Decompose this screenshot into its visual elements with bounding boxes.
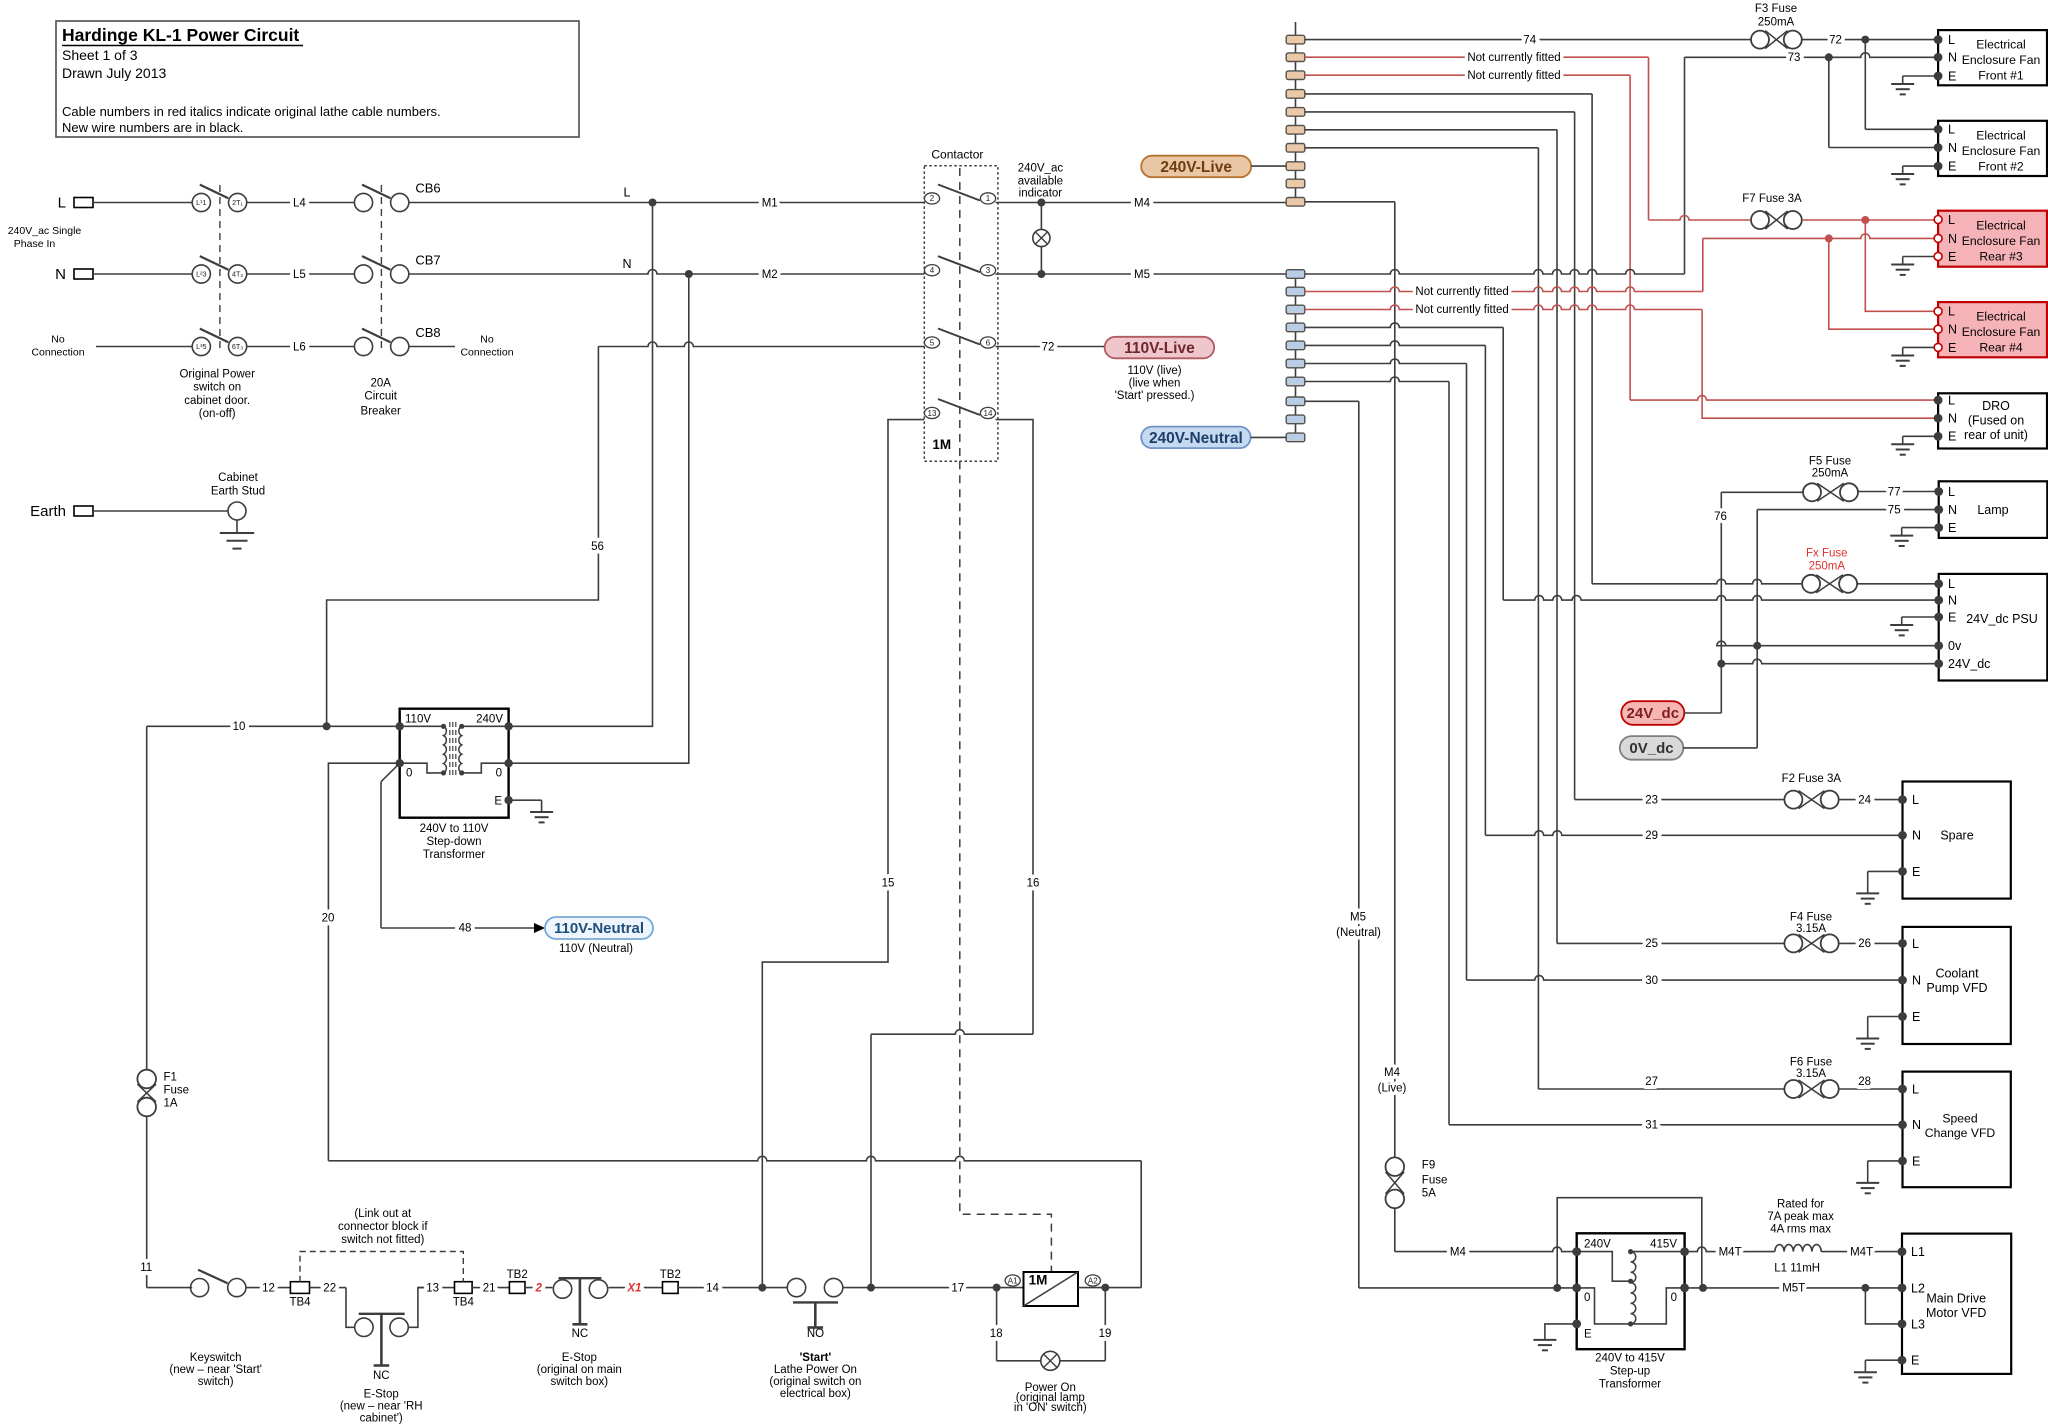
svg-text:NC: NC	[373, 1370, 390, 1382]
svg-text:Change VFD: Change VFD	[1925, 1126, 1996, 1140]
Fan2 pin L	[1934, 125, 1943, 134]
wire blu7 to Speed-N	[1305, 377, 1449, 382]
svg-text:240V to 110V: 240V to 110V	[420, 823, 489, 835]
terminal 240V-Neutral 1	[1286, 270, 1305, 279]
fan box Electrical Enclosure Fan Front #2	[1938, 121, 2047, 176]
svg-text:L5: L5	[293, 269, 306, 281]
svg-text:Enclosure Fan: Enclosure Fan	[1962, 144, 2041, 158]
wire tan4 to PSU-L	[1305, 93, 1592, 95]
Fan3 pin N	[1934, 234, 1942, 242]
svg-text:(Fused on: (Fused on	[1968, 414, 2024, 428]
wire M4T out	[1821, 1251, 1902, 1253]
svg-text:L²3: L²3	[196, 270, 206, 279]
junction L	[649, 199, 657, 207]
wire earth	[93, 510, 228, 512]
svg-text:F9: F9	[1422, 1159, 1435, 1171]
svg-text:M5: M5	[1350, 912, 1366, 924]
0V loop over T2	[1557, 1198, 1702, 1288]
svg-text:E: E	[1948, 341, 1956, 355]
wire N in	[93, 273, 192, 275]
svg-text:M4T: M4T	[1719, 1247, 1742, 1259]
Spare pin E	[1898, 867, 1907, 876]
junction wire16	[867, 1284, 875, 1292]
svg-text:rear of unit): rear of unit)	[1964, 428, 2028, 442]
box Coolant Pump VFD	[1903, 927, 2011, 1044]
junction 72/Fan2L	[1861, 36, 1869, 44]
terminal 240V-Live 9	[1286, 179, 1305, 188]
svg-text:5A: 5A	[1422, 1187, 1436, 1199]
junction M5T/L3	[1861, 1284, 1869, 1292]
wire blu2 riser to Fan3 N	[1702, 238, 1704, 291]
svg-text:Lamp: Lamp	[1977, 503, 2008, 517]
VFD pin L1	[1898, 1247, 1907, 1256]
wire A2 out	[1078, 1287, 1141, 1289]
junction F7/Fan4L	[1861, 216, 1869, 224]
svg-text:Motor VFD: Motor VFD	[1926, 1306, 1986, 1320]
wire 75	[1757, 509, 1939, 511]
svg-text:N: N	[1948, 51, 1957, 65]
Spare pin N	[1898, 831, 1907, 840]
Spare pin L	[1898, 795, 1907, 804]
Fan1 earth	[1903, 75, 1938, 77]
svg-text:110V: 110V	[405, 714, 431, 726]
transformer T2 box	[1577, 1233, 1685, 1349]
svg-text:Not currently fitted: Not currently fitted	[1467, 70, 1560, 82]
svg-text:New wire numbers are in black.: New wire numbers are in black.	[62, 120, 243, 135]
svg-text:L: L	[1912, 1082, 1919, 1096]
svg-text:indicator: indicator	[1019, 188, 1063, 200]
PSU pin L	[1934, 579, 1943, 588]
contactor pole 3 (pins 5-6)	[924, 337, 939, 348]
svg-text:M5T: M5T	[1782, 1283, 1805, 1295]
svg-text:13: 13	[928, 409, 937, 418]
wire PSU N feed	[1503, 596, 1939, 601]
DRO earth	[1903, 435, 1938, 437]
wire CB8 out	[409, 346, 455, 348]
wire 10 drop to F1	[146, 726, 148, 1069]
svg-text:240V-Neutral: 240V-Neutral	[1149, 430, 1243, 447]
svg-text:L4: L4	[293, 198, 306, 210]
fuse F6	[1784, 1080, 1802, 1098]
svg-text:31: 31	[1645, 1120, 1658, 1132]
svg-text:L1 11mH: L1 11mH	[1774, 1263, 1820, 1275]
wire 11 to keyswitch	[147, 1287, 193, 1289]
svg-text:E-Stop: E-Stop	[364, 1388, 399, 1400]
box 24V_dc PSU	[1939, 574, 2048, 681]
svg-text:14: 14	[984, 409, 993, 418]
wire not-fitted blu3 (red)	[1305, 305, 1702, 310]
svg-text:N: N	[622, 257, 631, 271]
svg-text:L³5: L³5	[196, 342, 206, 351]
svg-text:Hardinge KL-1 Power Circuit: Hardinge KL-1 Power Circuit	[62, 25, 299, 45]
svg-text:E: E	[1948, 250, 1956, 264]
svg-text:Fx Fuse: Fx Fuse	[1806, 547, 1848, 559]
svg-text:240V_ac Single: 240V_ac Single	[8, 225, 82, 237]
breaker gang link	[380, 185, 382, 352]
wire 24V_dc	[1721, 659, 1938, 664]
PSU pin 24V_dc	[1934, 659, 1943, 668]
box Speed Change VFD	[1903, 1072, 2011, 1188]
svg-text:13: 13	[426, 1283, 439, 1295]
wire blu8 M5 rail	[1305, 400, 1359, 402]
inductor L1	[1775, 1245, 1821, 1252]
svg-text:23: 23	[1645, 794, 1658, 806]
wire NC in	[96, 346, 192, 348]
svg-text:NO: NO	[807, 1328, 824, 1340]
svg-text:25: 25	[1645, 938, 1658, 950]
svg-text:E: E	[1912, 865, 1920, 879]
svg-text:'Start': 'Start'	[800, 1352, 832, 1364]
terminal 240V-Live 3	[1286, 71, 1305, 80]
junction wire19	[1101, 1284, 1109, 1292]
svg-text:Not currently fitted: Not currently fitted	[1467, 52, 1560, 64]
terminal 240V-Live 8	[1286, 162, 1305, 171]
svg-text:20A: 20A	[370, 377, 391, 389]
wire 12	[246, 1287, 290, 1289]
terminal 240V-Live 6	[1286, 126, 1305, 135]
svg-text:L1: L1	[1911, 1245, 1925, 1259]
wire tan5 to F2	[1305, 111, 1575, 113]
wire L to contactor (M1)	[409, 202, 925, 204]
PSU pin E	[1934, 613, 1943, 622]
svg-text:No: No	[480, 334, 494, 346]
T1 pin 0 right	[504, 759, 512, 767]
wire 19	[1104, 1288, 1106, 1361]
wire L6	[247, 346, 355, 348]
svg-text:Rear #4: Rear #4	[1979, 341, 2023, 355]
cabinet earth stud	[228, 502, 246, 520]
fan box Electrical Enclosure Fan Rear #4	[1938, 302, 2047, 357]
svg-text:Not currently fitted: Not currently fitted	[1415, 304, 1508, 316]
wire 48	[381, 763, 400, 782]
svg-text:17: 17	[951, 1283, 964, 1295]
switch S1 pole N (L²3/4T₂)	[192, 265, 210, 283]
svg-text:2: 2	[930, 194, 935, 203]
junction 24V_dc	[1717, 660, 1725, 668]
svg-text:7A peak max: 7A peak max	[1767, 1211, 1834, 1223]
contactor pole 4 (pins 13-14)	[924, 407, 939, 418]
terminal 240V-Neutral 5	[1286, 341, 1305, 350]
svg-text:0v: 0v	[1948, 639, 1962, 653]
DRO pin L	[1934, 396, 1943, 405]
svg-text:L: L	[1948, 485, 1955, 499]
connector N	[74, 269, 93, 279]
Lamp pin N	[1934, 505, 1943, 514]
svg-text:0: 0	[496, 768, 502, 780]
Lamp pin L	[1934, 487, 1943, 496]
svg-text:(new – near 'RH: (new – near 'RH	[340, 1400, 423, 1412]
net tag 240V-Neutral	[1141, 427, 1250, 449]
contactor pole 2 (pins 4-3)	[924, 265, 939, 276]
terminal 240V-Live 1	[1286, 35, 1305, 44]
breaker CB7	[354, 265, 372, 283]
svg-text:L: L	[1948, 577, 1955, 591]
svg-text:L3: L3	[1911, 1317, 1925, 1331]
net tag 110V-Live	[1105, 337, 1215, 359]
wire L5	[247, 273, 355, 275]
svg-text:No: No	[51, 334, 65, 346]
wire 18	[996, 1288, 998, 1361]
svg-text:28: 28	[1858, 1076, 1871, 1088]
svg-text:16: 16	[1027, 878, 1040, 890]
svg-text:M4: M4	[1450, 1246, 1467, 1258]
link-out dashed bypass	[300, 1252, 463, 1282]
svg-text:15: 15	[882, 878, 895, 890]
svg-text:Keyswitch: Keyswitch	[190, 1352, 242, 1364]
svg-text:F6 Fuse: F6 Fuse	[1790, 1057, 1832, 1069]
fuse F5	[1803, 483, 1821, 501]
svg-text:Enclosure Fan: Enclosure Fan	[1962, 234, 2041, 248]
svg-text:E: E	[1912, 1010, 1920, 1024]
wire 11	[146, 1117, 148, 1288]
junction indicator bottom	[1037, 270, 1045, 278]
svg-text:M1: M1	[762, 198, 778, 210]
T1 earth wire	[509, 799, 542, 801]
svg-text:N: N	[1948, 232, 1957, 246]
svg-text:L: L	[1948, 305, 1955, 319]
svg-text:CB8: CB8	[415, 325, 440, 340]
contactor coil 1M	[1024, 1272, 1079, 1306]
svg-text:240V: 240V	[476, 714, 503, 726]
svg-text:76: 76	[1714, 511, 1727, 523]
wire not-fitted tan2 (red)	[1305, 56, 1649, 58]
wire 24	[1839, 799, 1903, 801]
svg-text:110V-Live: 110V-Live	[1124, 340, 1195, 357]
svg-text:240V: 240V	[1584, 1239, 1611, 1251]
svg-text:Transformer: Transformer	[1599, 1379, 1661, 1391]
svg-text:Coolant: Coolant	[1935, 967, 1979, 981]
svg-text:250mA: 250mA	[1809, 561, 1846, 573]
svg-text:A2: A2	[1088, 1276, 1098, 1285]
svg-text:3.15A: 3.15A	[1796, 923, 1826, 935]
terminal strip 240V-Neutral rail	[1295, 274, 1297, 437]
wire Fan2 L drop	[1864, 40, 1866, 130]
svg-text:TB2: TB2	[660, 1269, 681, 1281]
wire 73	[1685, 53, 1939, 57]
VFD earth	[1865, 1359, 1902, 1361]
svg-text:E: E	[1948, 610, 1956, 624]
svg-text:E: E	[494, 796, 502, 808]
svg-text:77: 77	[1888, 486, 1901, 498]
svg-text:Front #1: Front #1	[1978, 69, 2024, 83]
switch S1 pole L (L¹1/2T₁)	[192, 193, 210, 211]
box Main Drive Motor VFD	[1902, 1234, 2011, 1374]
terminal 240V-Neutral 8	[1286, 397, 1305, 406]
svg-text:N: N	[1948, 323, 1957, 337]
wire Fan4 N drop	[1829, 238, 1938, 329]
svg-text:N: N	[1912, 1118, 1921, 1132]
svg-text:L: L	[624, 186, 631, 200]
svg-text:switch on: switch on	[193, 382, 241, 394]
DRO pin E	[1934, 432, 1943, 441]
svg-text:2: 2	[534, 1283, 542, 1295]
wire 13	[418, 1287, 455, 1289]
terminal 240V-Neutral 6	[1286, 359, 1305, 368]
Fan4 earth	[1903, 346, 1934, 348]
svg-text:NC: NC	[572, 1328, 589, 1340]
fuse Fx	[1802, 575, 1820, 593]
wire not-fitted tan3 drop (to DRO L)	[1629, 75, 1631, 400]
ground stud	[236, 520, 238, 533]
indicator lamp	[1040, 203, 1042, 230]
net tag 0V_dc	[1620, 736, 1684, 760]
wire 25	[1557, 942, 1784, 944]
PSU pin N	[1934, 596, 1943, 605]
svg-text:(Neutral): (Neutral)	[1336, 927, 1381, 939]
wire 74	[1305, 39, 1751, 41]
wire 10	[147, 725, 400, 727]
svg-text:N: N	[1912, 829, 1921, 843]
svg-text:19: 19	[1099, 1328, 1112, 1340]
svg-text:4: 4	[930, 266, 935, 275]
terminal 240V-Neutral 9	[1286, 415, 1305, 424]
svg-text:Circuit: Circuit	[364, 391, 397, 403]
E-stop ES1 (new)	[355, 1318, 373, 1336]
svg-text:L2: L2	[1911, 1281, 1925, 1295]
T1 pin E	[504, 796, 512, 804]
svg-text:56: 56	[591, 541, 604, 553]
wire tan6 to F4	[1305, 129, 1557, 131]
wire 22	[310, 1287, 347, 1289]
svg-text:Enclosure Fan: Enclosure Fan	[1962, 325, 2041, 339]
wire 20	[328, 763, 399, 1161]
Coolant earth	[1868, 1016, 1903, 1018]
svg-text:Speed: Speed	[1942, 1112, 1977, 1126]
wire 16	[996, 420, 1033, 1035]
T1 pin 240V	[504, 722, 512, 730]
svg-text:Transformer: Transformer	[423, 849, 485, 861]
terminal 240V-Live 10	[1286, 198, 1305, 207]
svg-text:1: 1	[986, 194, 991, 203]
svg-text:Step-up: Step-up	[1610, 1366, 1650, 1378]
svg-text:N: N	[1948, 594, 1957, 608]
svg-text:L6: L6	[293, 342, 306, 354]
wire M4 to rail	[1305, 201, 1395, 203]
fuse F7	[1751, 211, 1769, 229]
svg-text:Cable numbers in red italics i: Cable numbers in red italics indicate or…	[62, 104, 441, 119]
svg-text:4A rms max: 4A rms max	[1770, 1224, 1831, 1236]
wire F7 feed (red)	[1649, 216, 1751, 221]
wire PSU L feed	[1592, 579, 1802, 583]
svg-text:F4 Fuse: F4 Fuse	[1790, 912, 1832, 924]
connector L	[74, 198, 93, 208]
switch S1 pole NC (L³5/6T₃)	[192, 337, 210, 355]
svg-text:(original on main: (original on main	[537, 1364, 622, 1376]
wire 28	[1839, 1088, 1903, 1090]
wire tan7 to F6	[1305, 147, 1539, 149]
contactor gang dashed	[959, 168, 961, 461]
svg-text:29: 29	[1645, 830, 1658, 842]
wire 15	[762, 420, 924, 1288]
terminal 240V-Live 2	[1286, 53, 1305, 62]
svg-text:Electrical: Electrical	[1976, 218, 2025, 232]
net tag 110V-Neutral	[545, 917, 653, 939]
wire L3 jumper	[1865, 1288, 1902, 1324]
wire not-fitted blu2 (red)	[1305, 287, 1703, 292]
svg-text:240V-Live: 240V-Live	[1160, 159, 1232, 176]
svg-text:(new – near 'Start': (new – near 'Start'	[169, 1364, 262, 1376]
terminal 240V-Neutral 10	[1286, 433, 1305, 442]
Spare earth	[1868, 870, 1903, 872]
terminal 240V-Neutral 2	[1286, 287, 1305, 296]
wire M5 riser to 73	[1684, 57, 1686, 274]
svg-text:11: 11	[140, 1262, 152, 1274]
wire 72 F3 out	[1802, 39, 1938, 41]
svg-text:10: 10	[233, 721, 246, 733]
Fan3 pin E	[1934, 253, 1942, 261]
svg-text:250mA: 250mA	[1812, 467, 1849, 479]
svg-text:M4T: M4T	[1850, 1247, 1873, 1259]
contactor coil dashed link	[960, 461, 1052, 1271]
wire DRO L (red)	[1630, 396, 1938, 401]
fuse F9	[1386, 1157, 1405, 1176]
Fan4 pin N	[1934, 325, 1942, 333]
svg-text:Drawn July 2013: Drawn July 2013	[62, 65, 166, 81]
wire N to contactor (M2)	[409, 270, 925, 275]
wire blu3 drop to DRO N	[1702, 310, 1938, 419]
svg-text:in 'ON' switch): in 'ON' switch)	[1014, 1402, 1087, 1414]
svg-text:M4: M4	[1134, 198, 1151, 210]
svg-text:73: 73	[1788, 52, 1801, 64]
svg-text:1A: 1A	[164, 1098, 178, 1110]
svg-text:Sheet 1 of 3: Sheet 1 of 3	[62, 47, 138, 63]
svg-text:Not currently fitted: Not currently fitted	[1415, 286, 1508, 298]
svg-text:24V_dc: 24V_dc	[1948, 657, 1990, 671]
T2 earth	[1545, 1324, 1577, 1340]
svg-text:Step-down: Step-down	[427, 836, 482, 848]
svg-text:TB4: TB4	[289, 1297, 311, 1309]
svg-text:110V (live): 110V (live)	[1127, 365, 1181, 377]
svg-text:Connection: Connection	[31, 347, 84, 359]
svg-text:connector block if: connector block if	[338, 1221, 428, 1233]
box Lamp	[1939, 481, 2048, 538]
fuse F4	[1784, 934, 1802, 952]
svg-text:L¹1: L¹1	[196, 198, 206, 207]
svg-text:3: 3	[986, 266, 991, 275]
junction wire15	[758, 1284, 766, 1292]
Coolant pin L	[1898, 939, 1907, 948]
svg-text:A1: A1	[1008, 1276, 1018, 1285]
terminal 240V-Neutral 4	[1286, 323, 1305, 332]
svg-text:Front #2: Front #2	[1978, 159, 2024, 173]
fan box Electrical Enclosure Fan Front #1	[1938, 30, 2047, 85]
svg-text:L: L	[58, 195, 66, 212]
svg-text:Earth Stud: Earth Stud	[211, 486, 265, 498]
contactor pole 1 (pins 2-1)	[924, 193, 939, 204]
wire 76 feed	[1721, 491, 1803, 493]
svg-text:Lathe Power On: Lathe Power On	[774, 1364, 857, 1376]
terminal TB2 b	[663, 1282, 679, 1294]
wire L in	[93, 202, 192, 204]
svg-text:Rear #3: Rear #3	[1979, 249, 2023, 263]
terminal 240V-Neutral 7	[1286, 377, 1305, 386]
svg-text:110V-Neutral: 110V-Neutral	[554, 920, 644, 937]
svg-text:0: 0	[1584, 1292, 1590, 1304]
wire 75/0V vertical	[1756, 510, 1758, 748]
wire 77	[1858, 491, 1939, 493]
svg-text:1M: 1M	[1029, 1273, 1048, 1288]
DRO pin N	[1934, 414, 1943, 423]
Speed pin L	[1898, 1085, 1907, 1094]
svg-text:electrical box): electrical box)	[780, 1388, 851, 1400]
T2 pin 0 right	[1680, 1284, 1689, 1293]
svg-text:0: 0	[1671, 1292, 1677, 1304]
svg-text:0: 0	[406, 768, 412, 780]
svg-text:Pump VFD: Pump VFD	[1926, 981, 1987, 995]
svg-text:Fuse: Fuse	[164, 1085, 190, 1097]
Speed pin N	[1898, 1120, 1907, 1129]
junction 73/Fan2N	[1825, 53, 1833, 61]
